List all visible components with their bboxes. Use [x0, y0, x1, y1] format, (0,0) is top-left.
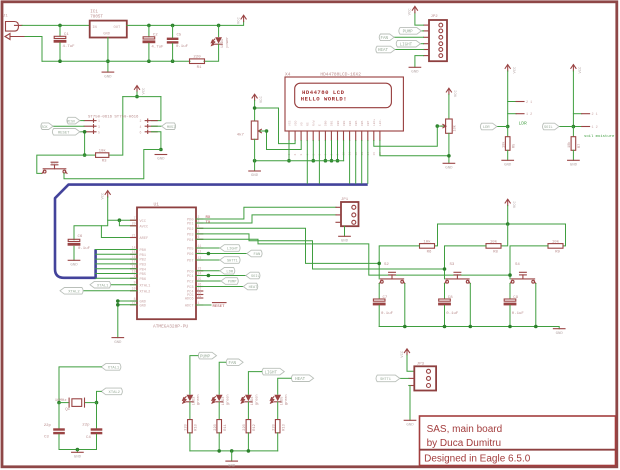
- svg-text:RS: RS: [307, 122, 310, 126]
- svg-text:power: power: [225, 37, 230, 48]
- svg-text:RESET: RESET: [213, 305, 226, 309]
- junction: [57, 401, 61, 405]
- wire XTAL2 to tag: [84, 290, 138, 292]
- svg-text:15: 15: [132, 250, 136, 254]
- wire DB6 to bus: [361, 141, 363, 184]
- pushbutton RST: [42, 162, 67, 173]
- junction: [159, 148, 163, 152]
- wire led to resistor: [189, 402, 191, 420]
- svg-text:4.7uF: 4.7uF: [63, 45, 76, 49]
- wire bottom power rail: [42, 60, 190, 62]
- wire S4 right to rail: [535, 284, 537, 327]
- wire LED- to gnd: [380, 141, 449, 156]
- header pin 3: [84, 125, 100, 129]
- LDR pin 1: [508, 113, 532, 117]
- LED1 power: [211, 37, 229, 48]
- svg-text:PD5: PD5: [187, 248, 193, 252]
- wire AVCC: [119, 220, 136, 226]
- wire bus to PB3: [96, 263, 137, 265]
- wire PC3 to HEAT: [196, 286, 243, 288]
- svg-text:S2: S2: [384, 263, 389, 267]
- wire reset to R3: [85, 154, 96, 156]
- svg-text:VCC: VCC: [140, 220, 146, 224]
- mcu left pins: [131, 216, 151, 308]
- net label SCK: [41, 123, 53, 130]
- svg-text:10k: 10k: [567, 142, 572, 148]
- net label XTAL1: [90, 281, 111, 288]
- svg-text:IC1: IC1: [90, 11, 98, 15]
- svg-text:DB2: DB2: [337, 120, 340, 126]
- header X2 ST750-0616 label: [88, 115, 139, 119]
- junction: [443, 267, 447, 271]
- wire vcc to pot: [254, 101, 256, 121]
- label TX: [206, 221, 211, 225]
- header pin 6: [140, 130, 158, 134]
- svg-text:220: 220: [243, 424, 247, 430]
- junction: [135, 95, 139, 99]
- svg-text:S3: S3: [450, 263, 455, 267]
- svg-text:VDD: VDD: [294, 120, 297, 126]
- svg-text:R5: R5: [512, 144, 516, 148]
- wire LED1 cathode to R1: [204, 44, 219, 61]
- ground crystal: [72, 452, 84, 459]
- svg-text:S4: S4: [515, 263, 520, 267]
- svg-text:20: 20: [132, 222, 136, 226]
- wire bus to PB0: [96, 249, 137, 251]
- wire led to resistor: [247, 402, 249, 420]
- ground pot2: [443, 163, 455, 170]
- wire R6 to S2 node: [379, 246, 419, 279]
- svg-text:ST750-0616 ST750-0616: ST750-0616 ST750-0616: [88, 115, 139, 119]
- net label HEAT: [243, 283, 258, 290]
- wire gnd rail drop: [254, 161, 256, 171]
- wire SOIL vcc stem: [572, 71, 574, 127]
- net label PUMP led: [198, 352, 216, 359]
- wire SOIL tag: [559, 126, 573, 128]
- svg-text:green: green: [255, 394, 260, 405]
- svg-text:DB1: DB1: [331, 120, 334, 126]
- voltage regulator IC1 7805T: [90, 11, 127, 38]
- junction: [443, 325, 447, 329]
- junction: [324, 159, 328, 163]
- svg-text:2 1: 2 1: [592, 113, 598, 117]
- SOIL pin 1: [573, 126, 597, 130]
- svg-text:R3: R3: [102, 160, 107, 164]
- junction: [171, 24, 175, 28]
- svg-text:GND: GND: [251, 174, 259, 178]
- label soil moisture: [584, 134, 615, 139]
- wire led to resistor: [277, 402, 279, 420]
- svg-text:7: 7: [134, 216, 136, 220]
- wire XTAL1 to tag: [111, 284, 137, 286]
- wire DB5 to bus: [355, 141, 357, 184]
- svg-text:green: green: [196, 394, 201, 405]
- svg-text:9: 9: [134, 281, 136, 285]
- junction: [287, 159, 291, 163]
- svg-text:220: 220: [214, 424, 218, 430]
- svg-text:PD1: PD1: [187, 223, 193, 227]
- svg-text:C9: C9: [513, 296, 518, 300]
- svg-text:PD3: PD3: [187, 234, 193, 238]
- svg-text:4k7: 4k7: [237, 133, 245, 138]
- svg-text:GND: GND: [341, 240, 349, 244]
- vcc symbol LDR: [505, 65, 517, 74]
- wire lcd gnd rail: [255, 160, 344, 162]
- wire HEAT tag to JP2: [395, 49, 424, 51]
- net label SHTT1 jp3: [376, 375, 400, 382]
- wire HEAT led: [278, 378, 291, 394]
- wire LDR vcc stem: [507, 71, 509, 127]
- svg-text:R9: R9: [555, 251, 560, 255]
- junction: [207, 252, 211, 256]
- svg-text:15: 15: [373, 152, 376, 156]
- svg-text:FAN: FAN: [380, 37, 388, 41]
- junction: [506, 125, 510, 129]
- wire S4 node to C9: [509, 284, 511, 300]
- svg-text:0.1uF: 0.1uF: [446, 312, 459, 316]
- wire vcc drop right to pin2: [152, 97, 161, 121]
- svg-text:2 1: 2 1: [526, 101, 532, 105]
- junction: [436, 124, 440, 128]
- vcc symbol top-left: [237, 15, 246, 24]
- wire PD6 to FAN: [196, 253, 247, 255]
- wire JP1 pin3 to gnd: [344, 226, 346, 236]
- svg-text:GND: GND: [406, 424, 414, 428]
- pushbutton S2: [379, 263, 405, 284]
- net label HEAT led: [291, 375, 313, 382]
- wire PD4 to S4: [196, 239, 510, 275]
- wire PD7 to SHTT1: [196, 259, 220, 261]
- svg-text:220: 220: [185, 424, 189, 430]
- svg-text:SHTT1: SHTT1: [227, 260, 238, 264]
- svg-text:9: 9: [134, 274, 136, 278]
- svg-text:PB3: PB3: [140, 264, 146, 268]
- svg-text:green: green: [284, 394, 289, 405]
- svg-text:VCC: VCC: [513, 66, 517, 74]
- wire LED+ to pot2: [374, 126, 438, 146]
- wire R5 to gnd: [507, 150, 509, 160]
- svg-text:R1: R1: [197, 66, 202, 70]
- svg-text:E: E: [319, 124, 322, 126]
- trimmer R2 4k7: [237, 121, 264, 139]
- svg-text:PUMP: PUMP: [403, 31, 414, 35]
- wire Q1 right to C4: [96, 403, 98, 429]
- svg-text:VCC: VCC: [143, 87, 147, 95]
- svg-text:LED-: LED-: [379, 119, 382, 126]
- wire Q1 left to C3: [58, 403, 60, 429]
- wire bus to PB4: [96, 268, 137, 270]
- svg-text:PD6: PD6: [187, 253, 193, 257]
- junction: [469, 325, 473, 329]
- wire JP2 pin1 to vcc: [415, 13, 424, 26]
- resistor R7 10k: [567, 137, 582, 151]
- wire C6 to gnd: [73, 246, 75, 260]
- wire VSS to gnd rail: [288, 141, 290, 161]
- svg-text:14: 14: [132, 245, 136, 249]
- resistor R12 220: [243, 420, 257, 433]
- wire XTAL2 net: [97, 391, 102, 402]
- svg-text:LDR: LDR: [519, 121, 528, 127]
- svg-text:VCC: VCC: [102, 192, 106, 200]
- wire DB2 to gnd rail: [337, 141, 339, 161]
- ground LDR: [502, 160, 514, 167]
- svg-text:0.1uF: 0.1uF: [78, 247, 91, 251]
- ground under C6: [68, 260, 80, 267]
- wire SHTT1 tag to JP3: [400, 377, 409, 379]
- svg-text:PD4: PD4: [187, 239, 193, 243]
- net label XTAL2 q: [101, 388, 122, 395]
- wire vcc to pot2: [448, 95, 450, 119]
- junction: [106, 59, 110, 63]
- wire resistor to rail: [189, 433, 191, 451]
- svg-text:R11: R11: [224, 424, 228, 430]
- ground JP2: [409, 67, 421, 74]
- svg-text:LED2: LED2: [193, 397, 197, 406]
- wire bus to PB2: [96, 258, 137, 260]
- svg-text:18: 18: [132, 265, 136, 269]
- svg-text:HELLO WORLD!: HELLO WORLD!: [301, 96, 347, 103]
- svg-text:JP1: JP1: [341, 198, 349, 202]
- svg-text:ADC6: ADC6: [185, 298, 194, 302]
- wire SOIL to R7: [572, 127, 574, 137]
- svg-text:LED+: LED+: [373, 119, 376, 126]
- wire S2 right to rail: [404, 284, 406, 327]
- wire DB7 to bus: [367, 141, 369, 184]
- wire C1 bottom: [59, 43, 61, 61]
- junction: [447, 154, 451, 158]
- svg-text:LED4: LED4: [251, 397, 255, 406]
- svg-text:PB1: PB1: [140, 254, 146, 258]
- LED4 green: [241, 394, 259, 405]
- vcc symbol buttons: [505, 199, 517, 208]
- ground SOIL: [568, 160, 580, 167]
- svg-text:HEAT: HEAT: [295, 378, 306, 382]
- svg-text:JP2: JP2: [431, 15, 439, 19]
- wire C2 bottom: [148, 43, 150, 61]
- svg-text:SOIL: SOIL: [544, 126, 553, 130]
- svg-text:2: 2: [294, 154, 297, 156]
- wire E to bus: [318, 141, 320, 184]
- svg-text:PB4: PB4: [140, 268, 146, 272]
- wire RS to bus: [306, 141, 308, 184]
- wire LDR to R5: [507, 127, 509, 137]
- wire PD3 to S3: [196, 234, 445, 269]
- ground JP1: [339, 236, 351, 243]
- wire DB1 to gnd rail: [331, 141, 333, 161]
- svg-text:RST: RST: [51, 163, 59, 167]
- wire MOSI tag to pin4: [152, 125, 162, 127]
- wire S3 node to C8: [444, 284, 446, 300]
- net label FAN: [247, 250, 262, 257]
- svg-text:soil moisture: soil moisture: [584, 134, 615, 139]
- vcc symbol ICSP: [134, 86, 146, 95]
- wire J1 sleeve to bottom rail: [25, 37, 42, 62]
- net label PUMP: [221, 278, 238, 285]
- svg-text:J1: J1: [3, 15, 8, 19]
- resistor R5 10k: [502, 137, 517, 151]
- svg-text:XTAL1: XTAL1: [140, 284, 151, 288]
- svg-text:1 2: 1 2: [526, 113, 532, 117]
- wire resistor to rail: [247, 433, 249, 451]
- wire IC1 OUT to VCC: [127, 22, 244, 26]
- svg-text:LED5: LED5: [280, 397, 284, 406]
- resistor R8 10k: [486, 239, 501, 254]
- junction: [403, 325, 407, 329]
- junction: [217, 24, 221, 28]
- mcu right pins: [185, 215, 203, 309]
- junction: [247, 449, 251, 453]
- svg-text:GND: GND: [103, 33, 111, 37]
- svg-text:MISO: MISO: [67, 120, 75, 124]
- junction: [230, 449, 234, 453]
- wire DB0 to gnd rail: [324, 141, 326, 161]
- svg-text:10k: 10k: [552, 239, 560, 244]
- svg-text:LIGHT: LIGHT: [265, 371, 278, 375]
- wire AREF: [101, 226, 136, 238]
- wire C4 bottom: [96, 434, 98, 449]
- svg-text:DB0: DB0: [325, 120, 328, 126]
- svg-text:LED1: LED1: [221, 39, 225, 48]
- junction: [312, 159, 316, 163]
- capacitor C6 0.1uF: [68, 235, 91, 251]
- label RX: [206, 216, 211, 220]
- svg-text:GND: GND: [157, 158, 165, 162]
- svg-text:22p: 22p: [44, 424, 52, 428]
- svg-text:7805T: 7805T: [90, 16, 103, 20]
- resistor R6 10k: [420, 239, 435, 254]
- svg-text:GND: GND: [504, 164, 512, 168]
- wire TX to JP1: [196, 215, 336, 223]
- ground buttons: [553, 329, 565, 336]
- capacitor C1 4.7uF: [54, 33, 76, 49]
- net label FAN led: [226, 359, 243, 366]
- net label LDR: [220, 268, 235, 275]
- svg-text:IN: IN: [92, 26, 97, 30]
- header pin 1: [84, 119, 100, 123]
- svg-text:XTAL1: XTAL1: [108, 367, 120, 371]
- ground under IC1: [102, 72, 114, 79]
- wire R8 to S3 node: [445, 246, 487, 279]
- svg-text:VSS: VSS: [288, 120, 291, 126]
- svg-text:U1: U1: [154, 201, 160, 207]
- svg-text:Q1: Q1: [65, 408, 70, 412]
- svg-text:LIGHT: LIGHT: [227, 248, 239, 252]
- wire PUMP tag to JP2: [421, 30, 423, 32]
- wire C7 bottom: [378, 305, 380, 326]
- wire bus to PB5: [96, 273, 137, 275]
- svg-text:VCC: VCC: [513, 201, 517, 209]
- svg-text:OUT: OUT: [114, 26, 122, 30]
- junction: [572, 125, 576, 129]
- svg-text:0.1uF: 0.1uF: [381, 312, 394, 316]
- wire C5 top: [172, 25, 174, 37]
- wire resistor to rail: [277, 433, 279, 451]
- wire led gnd drop: [231, 451, 233, 461]
- svg-text:HEAT: HEAT: [249, 286, 258, 290]
- wire JP3 vcc: [407, 355, 414, 371]
- svg-text:PC0: PC0: [187, 270, 193, 274]
- svg-text:R/W: R/W: [312, 120, 316, 126]
- net label PUMP jp2: [399, 28, 422, 35]
- svg-text:X4: X4: [285, 71, 291, 77]
- svg-text:PC3: PC3: [187, 286, 193, 290]
- svg-text:220: 220: [193, 56, 201, 60]
- svg-text:JP3: JP3: [417, 363, 425, 367]
- svg-text:PB0: PB0: [140, 249, 146, 253]
- svg-text:VCC: VCC: [409, 8, 413, 16]
- svg-text:5: 5: [98, 130, 100, 134]
- svg-text:10k: 10k: [423, 239, 431, 244]
- connector JP1: [336, 198, 359, 226]
- svg-text:XTAL2: XTAL2: [109, 391, 121, 395]
- svg-text:FAN: FAN: [228, 362, 236, 366]
- vcc symbol pot R2: [252, 94, 264, 103]
- svg-text:DB3: DB3: [343, 120, 346, 126]
- ground ICSP: [155, 155, 167, 162]
- svg-text:220: 220: [273, 424, 277, 430]
- wire bus to PB1: [96, 253, 137, 255]
- net label SOIL: [246, 272, 260, 279]
- SOIL pin 2: [573, 113, 597, 117]
- svg-text:10k: 10k: [490, 239, 498, 244]
- svg-text:C3: C3: [44, 436, 49, 440]
- wire pot wiper: [260, 130, 267, 132]
- junction: [58, 24, 62, 28]
- wire FAN led: [219, 362, 226, 394]
- svg-text:PUMP: PUMP: [200, 355, 211, 359]
- mcu U1 ATMEGA328P-PU box: [137, 201, 196, 329]
- svg-text:C6: C6: [78, 235, 83, 239]
- svg-text:VCC: VCC: [579, 66, 583, 74]
- wire PD5 to LIGHT: [196, 247, 220, 249]
- net label SOIL sensor: [543, 123, 560, 130]
- wire pin6 to gnd: [152, 132, 161, 150]
- junction: [116, 299, 120, 303]
- svg-text:C8: C8: [448, 296, 453, 300]
- junction: [118, 218, 122, 222]
- wire MCU GND2: [118, 304, 137, 306]
- wire R7 to gnd: [572, 150, 574, 160]
- svg-text:GND: GND: [70, 264, 78, 268]
- svg-text:R6: R6: [427, 251, 432, 255]
- wire pot2 wiper: [437, 125, 443, 127]
- vcc symbol pot R4: [446, 88, 458, 97]
- svg-text:TX: TX: [206, 221, 211, 225]
- svg-text:LDR: LDR: [483, 126, 491, 130]
- svg-text:LIGHT: LIGHT: [400, 43, 413, 47]
- resistor R3 10k: [96, 149, 109, 164]
- wire LIGHT tag to JP2: [420, 43, 423, 45]
- svg-text:3: 3: [300, 154, 303, 156]
- wire rail to R9: [563, 224, 566, 246]
- svg-text:PB2: PB2: [140, 259, 146, 263]
- wire crystal gnd drop: [76, 450, 78, 453]
- svg-text:1: 1: [198, 301, 200, 305]
- vcc symbol JP3: [401, 349, 410, 358]
- svg-text:25: 25: [198, 277, 202, 281]
- net label HEAT jp2: [376, 46, 395, 53]
- wire PD2 to S2: [196, 228, 379, 263]
- svg-text:DB7: DB7: [367, 120, 370, 126]
- junction: [336, 159, 340, 163]
- svg-text:PB5: PB5: [140, 273, 146, 277]
- capacitor C2 4.7uF: [143, 33, 165, 49]
- net label SHTT1: [220, 257, 240, 264]
- svg-text:GND: GND: [445, 167, 453, 171]
- svg-text:GND: GND: [411, 71, 419, 75]
- resistor R1 220: [190, 56, 205, 70]
- ground under MCU: [112, 338, 124, 345]
